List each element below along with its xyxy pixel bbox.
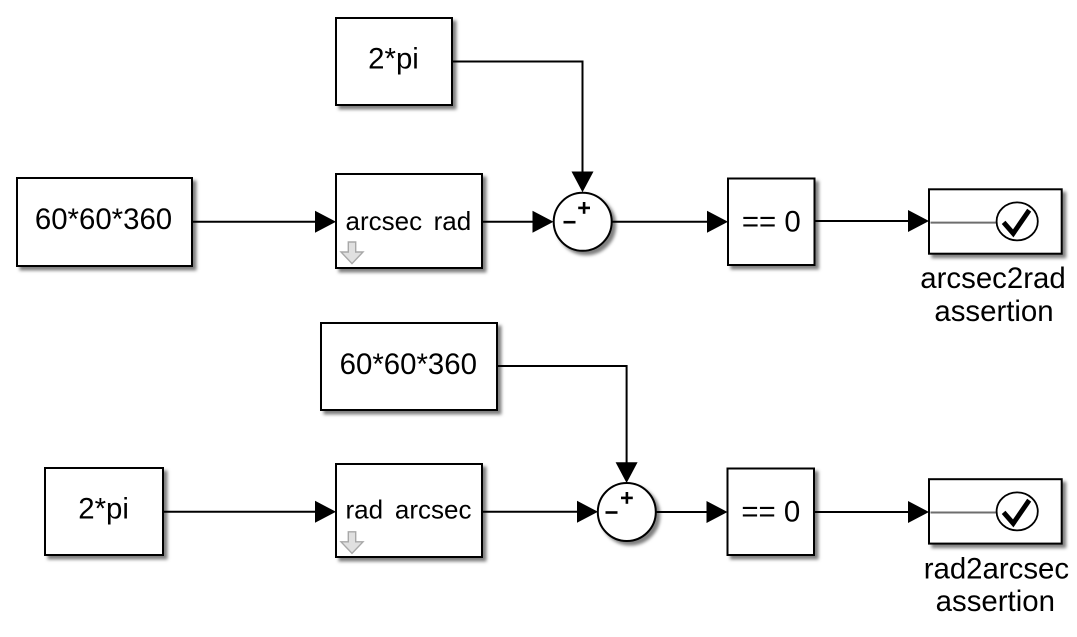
arrowhead into rad arcsec input port xyxy=(315,501,336,523)
svg-text:2*pi: 2*pi xyxy=(78,492,129,525)
constant block Constant2 "2*pi" (top) xyxy=(336,18,452,105)
wire from arcsec rad to Sum1 left port xyxy=(482,211,554,233)
arrowhead into arcsec rad input port xyxy=(315,211,336,233)
subsystem block "rad arcsec" xyxy=(336,464,482,557)
arrowhead into Sum2 top (+) port xyxy=(616,462,638,483)
wire from Sum2 to == 0 block (bottom) xyxy=(656,501,727,523)
svg-text:arcsec: arcsec xyxy=(346,206,423,236)
constant block Constant4 "2*pi" (bottom-left) xyxy=(45,468,163,555)
svg-text:rad: rad xyxy=(346,495,384,525)
arrowhead into == 0 input port (bottom row) xyxy=(707,501,728,523)
svg-text:60*60*360: 60*60*360 xyxy=(340,348,477,381)
svg-text:rad2arcsec: rad2arcsec xyxy=(924,552,1069,585)
svg-text:assertion: assertion xyxy=(936,585,1055,618)
wire from Constant2 to Sum1 top port xyxy=(452,62,594,193)
arrowhead into Sum2 left (-) port xyxy=(577,501,598,523)
arrowhead into == 0 input port (top row) xyxy=(707,211,728,233)
relational operator block "== 0" (bottom) xyxy=(728,469,815,556)
wire from Constant3 to Sum2 top port xyxy=(497,366,638,483)
arrowhead into rad2arcsec assertion input port xyxy=(908,501,929,523)
wire from == 0 to assertion block (bottom) xyxy=(814,501,929,523)
subsystem block "arcsec rad" xyxy=(336,174,482,268)
svg-text:arcsec2rad: arcsec2rad xyxy=(920,262,1065,295)
sum block Sum1 (circle) xyxy=(554,193,612,251)
wire from rad arcsec to Sum2 left port xyxy=(482,501,598,523)
link badge arrow (gray) xyxy=(341,532,363,554)
check mark xyxy=(1004,500,1030,523)
internal gray line xyxy=(931,512,997,514)
constant block Constant1 "60*60*360" (top-left) xyxy=(17,178,192,266)
svg-text:== 0: == 0 xyxy=(742,206,801,239)
label "arcsec2rad assertion" xyxy=(920,262,1065,328)
check circle xyxy=(997,492,1038,530)
arrowhead into arcsec2rad assertion input port xyxy=(908,210,929,232)
plus sign (top port) xyxy=(621,497,633,500)
svg-text:arcsec: arcsec xyxy=(395,495,472,525)
arrowhead into Sum1 left (-) port xyxy=(533,211,554,233)
sum block Sum2 (circle) xyxy=(598,483,656,541)
check circle xyxy=(997,202,1038,240)
plus sign (top port) xyxy=(578,207,590,210)
constant block Constant3 "60*60*360" (bottom) xyxy=(321,323,497,410)
assertion block "arcsec2rad assertion" xyxy=(929,189,1062,253)
wire from Constant4 to rad arcsec subsystem xyxy=(163,501,336,523)
minus sign (left port) xyxy=(564,221,576,224)
svg-text:rad: rad xyxy=(434,206,472,236)
arrowhead into Sum1 top (+) port xyxy=(572,172,594,193)
wire from Constant1 to arcsec rad subsystem xyxy=(192,211,336,233)
svg-text:== 0: == 0 xyxy=(741,496,800,529)
label "rad2arcsec assertion" xyxy=(924,552,1069,618)
wire from Sum1 to == 0 block xyxy=(612,211,728,233)
check mark xyxy=(1004,210,1030,233)
relational operator block "== 0" (top) xyxy=(728,179,815,266)
link badge arrow (gray) xyxy=(341,242,363,264)
svg-text:assertion: assertion xyxy=(934,295,1053,328)
internal gray line xyxy=(931,222,997,224)
wire from == 0 to assertion block (top) xyxy=(815,210,930,232)
assertion block "rad2arcsec assertion" xyxy=(929,479,1062,543)
svg-text:2*pi: 2*pi xyxy=(368,43,419,76)
svg-text:60*60*360: 60*60*360 xyxy=(35,203,172,236)
minus sign (left port) xyxy=(606,511,618,514)
